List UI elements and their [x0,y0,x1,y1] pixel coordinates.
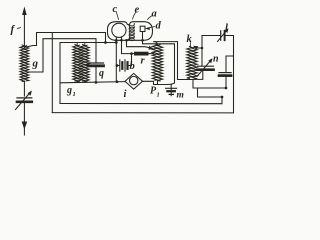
node filament leg / phone wire [116,80,119,83]
wire bus-B riser (from H1 down to bottom bus) [51,33,53,113]
svg-text:g: g [66,85,72,96]
wire k-top / l riser [201,36,203,66]
node q / phone wire [95,81,98,84]
wire P1 top loop [154,42,193,80]
wire bus A [60,103,222,105]
svg-text:e: e [135,5,140,16]
tube filament c (ball) [112,23,126,37]
node H1/H3 junction [104,41,107,44]
svg-text:k: k [187,34,193,45]
svg-text:n: n [213,54,219,65]
wire diamond to P1 [143,81,154,84]
capacitor q plates [88,62,104,64]
right capacitor branch [226,56,234,72]
ground m [170,84,172,95]
capacitor n (variable) plates [198,65,214,67]
P1 bottom hooks [154,81,162,85]
wire n bottom lead [193,71,203,79]
wire to bus A right [198,88,223,104]
telephone i (diamond with circle) [125,73,143,89]
svg-text:q: q [99,68,104,79]
resistor r [134,52,149,56]
wire battery left terminal [117,54,132,66]
wire phone line [60,82,125,83]
svg-text:i: i [124,89,127,100]
tube plate d (square) [140,26,145,31]
svg-text:1: 1 [157,92,160,99]
coil k [187,47,192,79]
grid tap arrow onto P1 top [149,46,154,50]
capacitor l (variable) [220,31,222,40]
wire bus B [52,112,233,114]
coil P1 [152,44,157,80]
k top tap arrow [197,47,203,49]
svg-text:g: g [32,58,39,70]
svg-text:d: d [156,21,162,32]
coil g1 [73,45,77,82]
antenna f [23,13,25,48]
tube grid e (helix) [129,24,134,41]
wire capacitor to ground [23,104,25,136]
label f [17,27,20,30]
battery b plates [119,60,121,71]
coil g [20,45,24,82]
svg-text:1: 1 [73,91,76,98]
wire coil g bottom to variable capacitor [23,82,25,97]
variable capacitor (antenna tuning) [17,97,32,99]
svg-text:a: a [152,9,157,20]
wire l branch top [202,36,234,113]
P1 top hook to plate loop wire [154,42,158,45]
svg-text:b: b [130,61,135,72]
plate lead [143,32,175,85]
wire H3: loop top, to filament lead [60,43,116,104]
wire q bottom lead [95,67,97,82]
wire H2: coil g lower tap to grid condenser q [28,39,96,72]
wire H1: coil g top tap to tube area [25,33,106,48]
wire k bottom drop [193,79,226,88]
tube a: envelope [108,22,153,41]
svg-text:l: l [225,23,228,34]
ground (counterpoise arrow) [22,122,28,130]
grid lead [127,39,151,48]
filament legs [115,37,117,82]
svg-text:m: m [177,91,184,101]
